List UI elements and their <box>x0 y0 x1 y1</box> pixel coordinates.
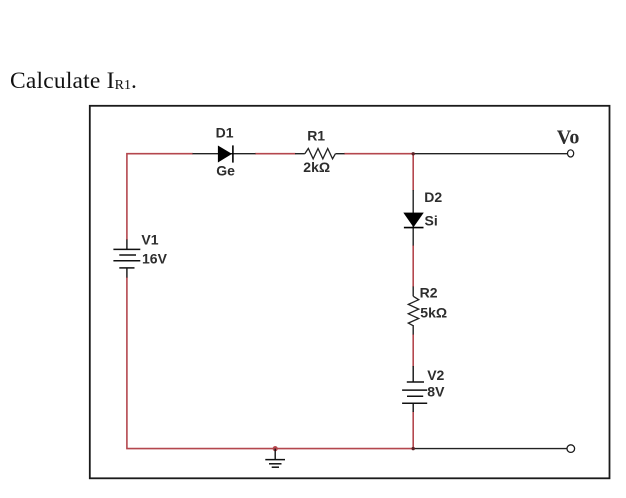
svg-text:2kΩ: 2kΩ <box>303 159 330 175</box>
resistor R2 <box>408 287 418 335</box>
wire: red segment D2 to R2 <box>412 245 414 287</box>
svg-text:V2: V2 <box>427 367 444 383</box>
label R2 <box>420 285 438 301</box>
svg-text:16V: 16V <box>142 250 168 266</box>
title text "Calculate IR1." <box>10 70 137 94</box>
wire: red segment V2 to bottom rail <box>412 412 414 450</box>
wire: red segment R1 to top-right junction <box>344 154 413 191</box>
label D1 <box>216 125 234 141</box>
label Vo <box>557 126 580 148</box>
label 8V <box>427 384 445 400</box>
label 5kΩ <box>420 304 447 320</box>
label R1 <box>307 128 325 144</box>
svg-text:V1: V1 <box>141 232 158 248</box>
svg-text:R2: R2 <box>420 285 438 301</box>
diode D2 (Si) <box>404 213 424 228</box>
label D2 <box>424 189 442 205</box>
label V2 <box>427 367 444 383</box>
svg-text:D1: D1 <box>216 125 234 141</box>
battery V2 (8V) <box>402 366 427 412</box>
node: ground junction dot <box>273 446 278 451</box>
terminal bottom-right <box>567 445 575 453</box>
wire: black lead through D2 <box>412 190 414 246</box>
circuit frame box <box>90 106 610 479</box>
svg-text:Vo: Vo <box>557 126 580 148</box>
battery V1 (16V) <box>113 240 140 278</box>
svg-text:R1: R1 <box>307 128 325 144</box>
node: top-right junction <box>412 152 415 155</box>
svg-text:8V: 8V <box>427 384 445 400</box>
label V1 <box>141 232 158 248</box>
terminal Vo <box>568 150 574 157</box>
wire: red segment between D1 and R1 <box>255 153 296 155</box>
svg-text:Ge: Ge <box>216 163 235 179</box>
wire: top-left red segment (V1 to D1) <box>127 154 193 240</box>
label Ge <box>216 163 235 179</box>
svg-text:Si: Si <box>425 212 438 228</box>
wire: black output wire to Vo <box>413 153 567 155</box>
wire: black bottom output wire <box>413 448 567 450</box>
label 16V <box>142 250 168 266</box>
label Si <box>425 212 438 228</box>
svg-text:5kΩ: 5kΩ <box>420 304 447 320</box>
resistor R1 <box>295 149 345 159</box>
svg-text:D2: D2 <box>424 189 442 205</box>
ground symbol <box>265 449 285 468</box>
wire: bottom red rail <box>127 277 413 449</box>
wire: black lead through D1 <box>193 153 256 155</box>
node: bottom-right junction <box>412 447 415 450</box>
wire: red segment R2 to V2 <box>412 334 414 367</box>
diode D1 (Ge) <box>218 145 233 162</box>
label 2kΩ <box>303 159 330 175</box>
